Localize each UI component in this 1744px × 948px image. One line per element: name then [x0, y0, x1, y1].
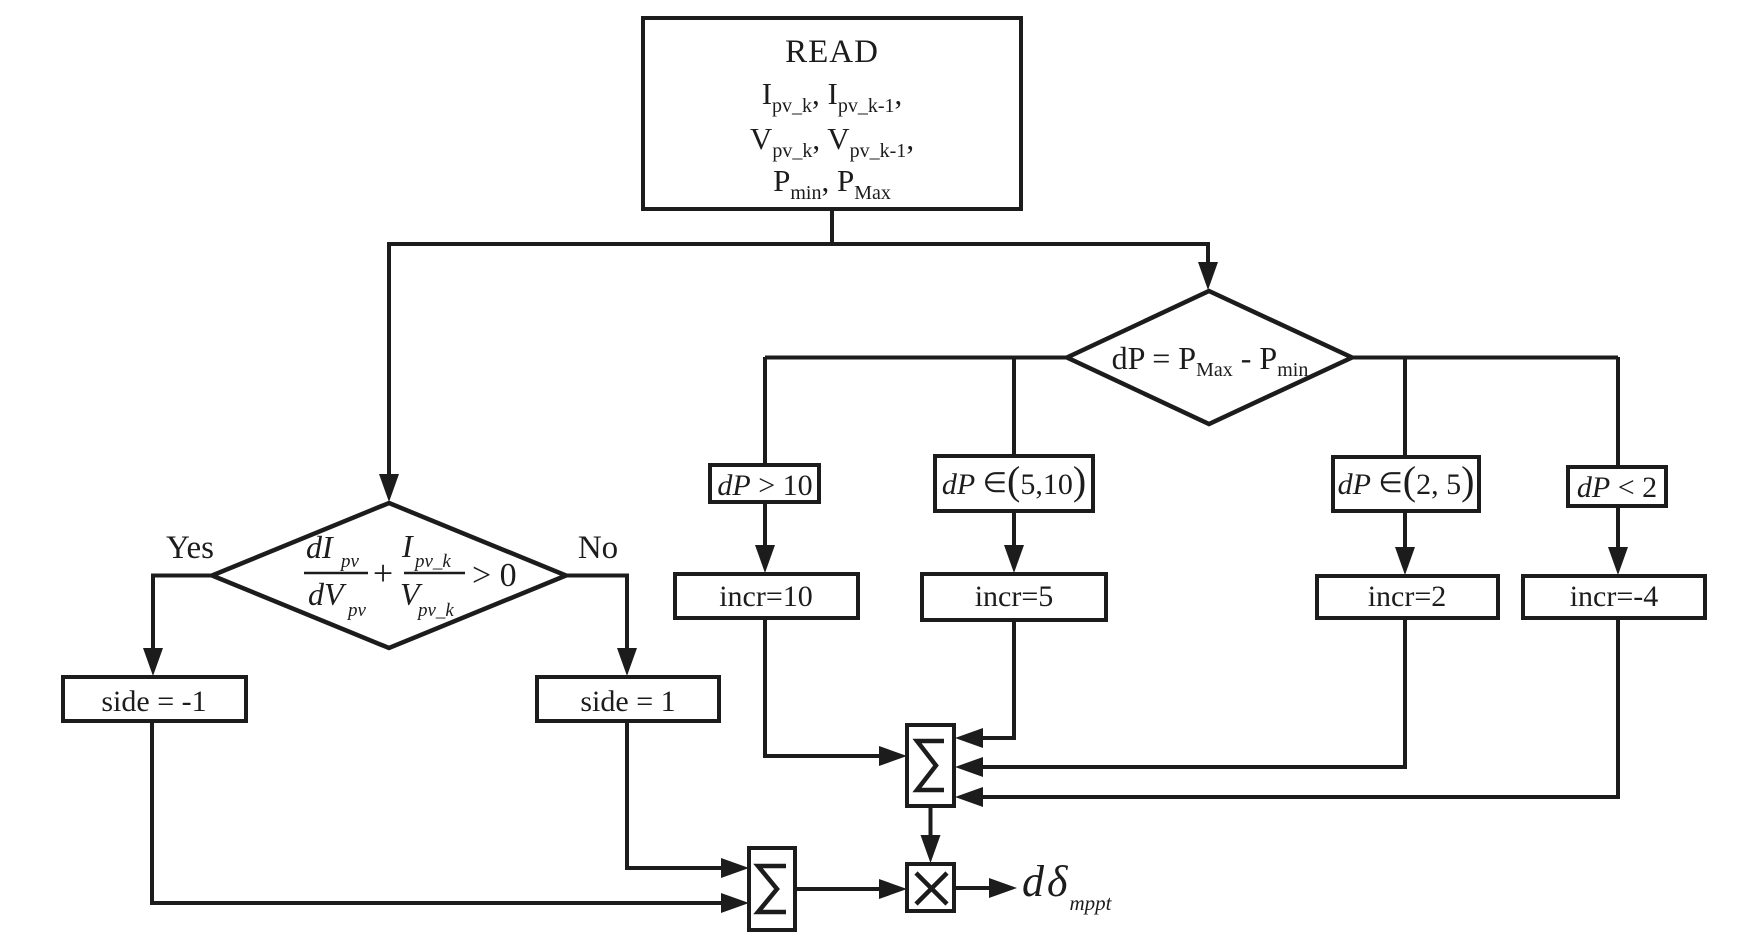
svg-text:pv_k: pv_k — [413, 551, 451, 572]
arrow into incr2 — [1395, 547, 1415, 575]
svg-text:dI: dI — [306, 529, 334, 565]
svg-text:incr=2: incr=2 — [1368, 580, 1447, 613]
svg-text:> 0: > 0 — [472, 557, 517, 594]
svg-text:+: + — [373, 553, 393, 593]
box incr=5 — [922, 574, 1106, 620]
wire incr2 to sum1 — [980, 618, 1405, 767]
formula I/V fraction — [400, 528, 465, 621]
wire left of dP diamond — [765, 356, 1067, 360]
box side=-1 — [63, 677, 246, 721]
svg-text:incr=-4: incr=-4 — [1570, 580, 1659, 613]
decision diamond dP — [1067, 291, 1352, 424]
wire (5,10) to incr5 — [1012, 511, 1016, 550]
wire incr10 to sum1 — [765, 618, 882, 756]
svg-text:incr=10: incr=10 — [719, 580, 813, 613]
READ box — [643, 18, 1021, 209]
arrow into incr10 — [755, 545, 775, 573]
box incr=10 — [675, 574, 858, 618]
arrow into sum1 left — [879, 746, 907, 766]
svg-text:Yes: Yes — [166, 530, 214, 566]
branch dP in (2,5) drop — [1403, 357, 1407, 457]
box incr=-4 — [1523, 576, 1705, 618]
wire header horizontal — [389, 242, 1208, 246]
summation block sum2 — [749, 848, 795, 930]
box incr=2 — [1317, 576, 1498, 618]
svg-text:side = -1: side = -1 — [101, 685, 206, 718]
svg-text:dP < 2: dP < 2 — [1577, 471, 1657, 504]
wire READ to split — [830, 209, 834, 244]
svg-text:dV: dV — [308, 576, 347, 612]
wire incr-4 to sum1 — [980, 618, 1618, 797]
wire side=1 to sum2 — [627, 721, 722, 868]
label box dP in (2,5) — [1333, 457, 1479, 511]
svg-text:READ: READ — [785, 34, 879, 70]
branch dP<2 drop — [1616, 357, 1620, 468]
wire side=-1 to sum2 — [152, 721, 722, 903]
arrow into left diamond — [379, 474, 399, 502]
svg-text:I: I — [401, 528, 414, 564]
wire yes branch — [153, 576, 212, 653]
arrow into multiplier top — [921, 835, 941, 863]
arrow into sum1 right top — [955, 728, 983, 748]
arrow into right diamond — [1198, 262, 1218, 290]
wire (2,5) to incr2 — [1403, 511, 1407, 552]
svg-text:pv_k: pv_k — [416, 600, 454, 621]
branch dP>10 drop — [763, 357, 767, 466]
multiplier block — [907, 864, 954, 911]
svg-text:pv: pv — [339, 551, 360, 572]
arrow into multiplier left — [879, 879, 907, 899]
arrow into sum2 lower — [721, 893, 749, 913]
decision diamond slope condition — [212, 503, 566, 648]
arrow output — [989, 878, 1017, 898]
wire multiplier output — [954, 886, 992, 890]
wire right drop — [1206, 242, 1210, 266]
label box dP in (5,10) — [935, 456, 1093, 511]
label box dP<2 — [1568, 467, 1666, 506]
wire sum1 to multiplier — [929, 806, 933, 840]
svg-text:incr=5: incr=5 — [975, 580, 1054, 613]
svg-text:side = 1: side = 1 — [580, 685, 675, 718]
arrow into incr-4 — [1608, 547, 1628, 575]
wire right of dP diamond — [1352, 356, 1618, 360]
arrow into sum2 upper — [721, 858, 749, 878]
wire left drop — [387, 242, 391, 478]
formula dI/dV fraction — [304, 529, 368, 621]
summation block sum1 — [907, 725, 954, 806]
arrow into incr5 — [1004, 545, 1024, 573]
arrow into sum1 right bottom — [955, 787, 983, 807]
arrow into sum1 right middle — [955, 757, 983, 777]
wire dP>10 to incr10 — [763, 502, 767, 550]
wire no branch — [566, 576, 627, 653]
wire dP<2 to incr-4 — [1616, 506, 1620, 552]
box side=1 — [537, 677, 719, 721]
svg-text:dP > 10: dP > 10 — [717, 469, 812, 502]
arrow into side=-1 — [143, 648, 163, 676]
arrow into side=1 — [617, 648, 637, 676]
label box dP>10 — [710, 465, 819, 502]
branch dP in (5,10) drop — [1012, 357, 1016, 456]
wire sum2 to multiplier — [795, 887, 882, 891]
svg-text:No: No — [578, 530, 618, 566]
svg-text:pv: pv — [346, 600, 367, 621]
wire incr5 to sum1 — [980, 620, 1014, 738]
